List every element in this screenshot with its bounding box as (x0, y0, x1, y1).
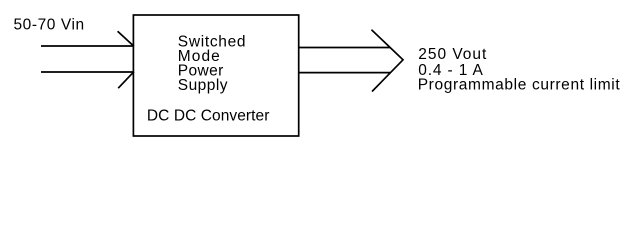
svg-text:Programmable current limit: Programmable current limit (418, 77, 621, 94)
block U1: switched mode power supply box (133, 15, 298, 136)
wire output bottom (299, 72, 391, 74)
wire input top (41, 45, 134, 47)
wire input bottom (41, 71, 134, 73)
arrowhead output chevron (372, 30, 403, 91)
svg-text:DC DC Converter: DC DC Converter (147, 107, 270, 124)
arrowhead input top (118, 31, 134, 46)
wire output top (299, 47, 391, 49)
arrowhead input bottom (118, 72, 134, 89)
svg-text:SwitchedModePowerSupply: SwitchedModePowerSupply (178, 34, 246, 95)
svg-text:250 Vout: 250 Vout (418, 46, 487, 63)
svg-text:50-70 Vin: 50-70 Vin (14, 17, 85, 34)
